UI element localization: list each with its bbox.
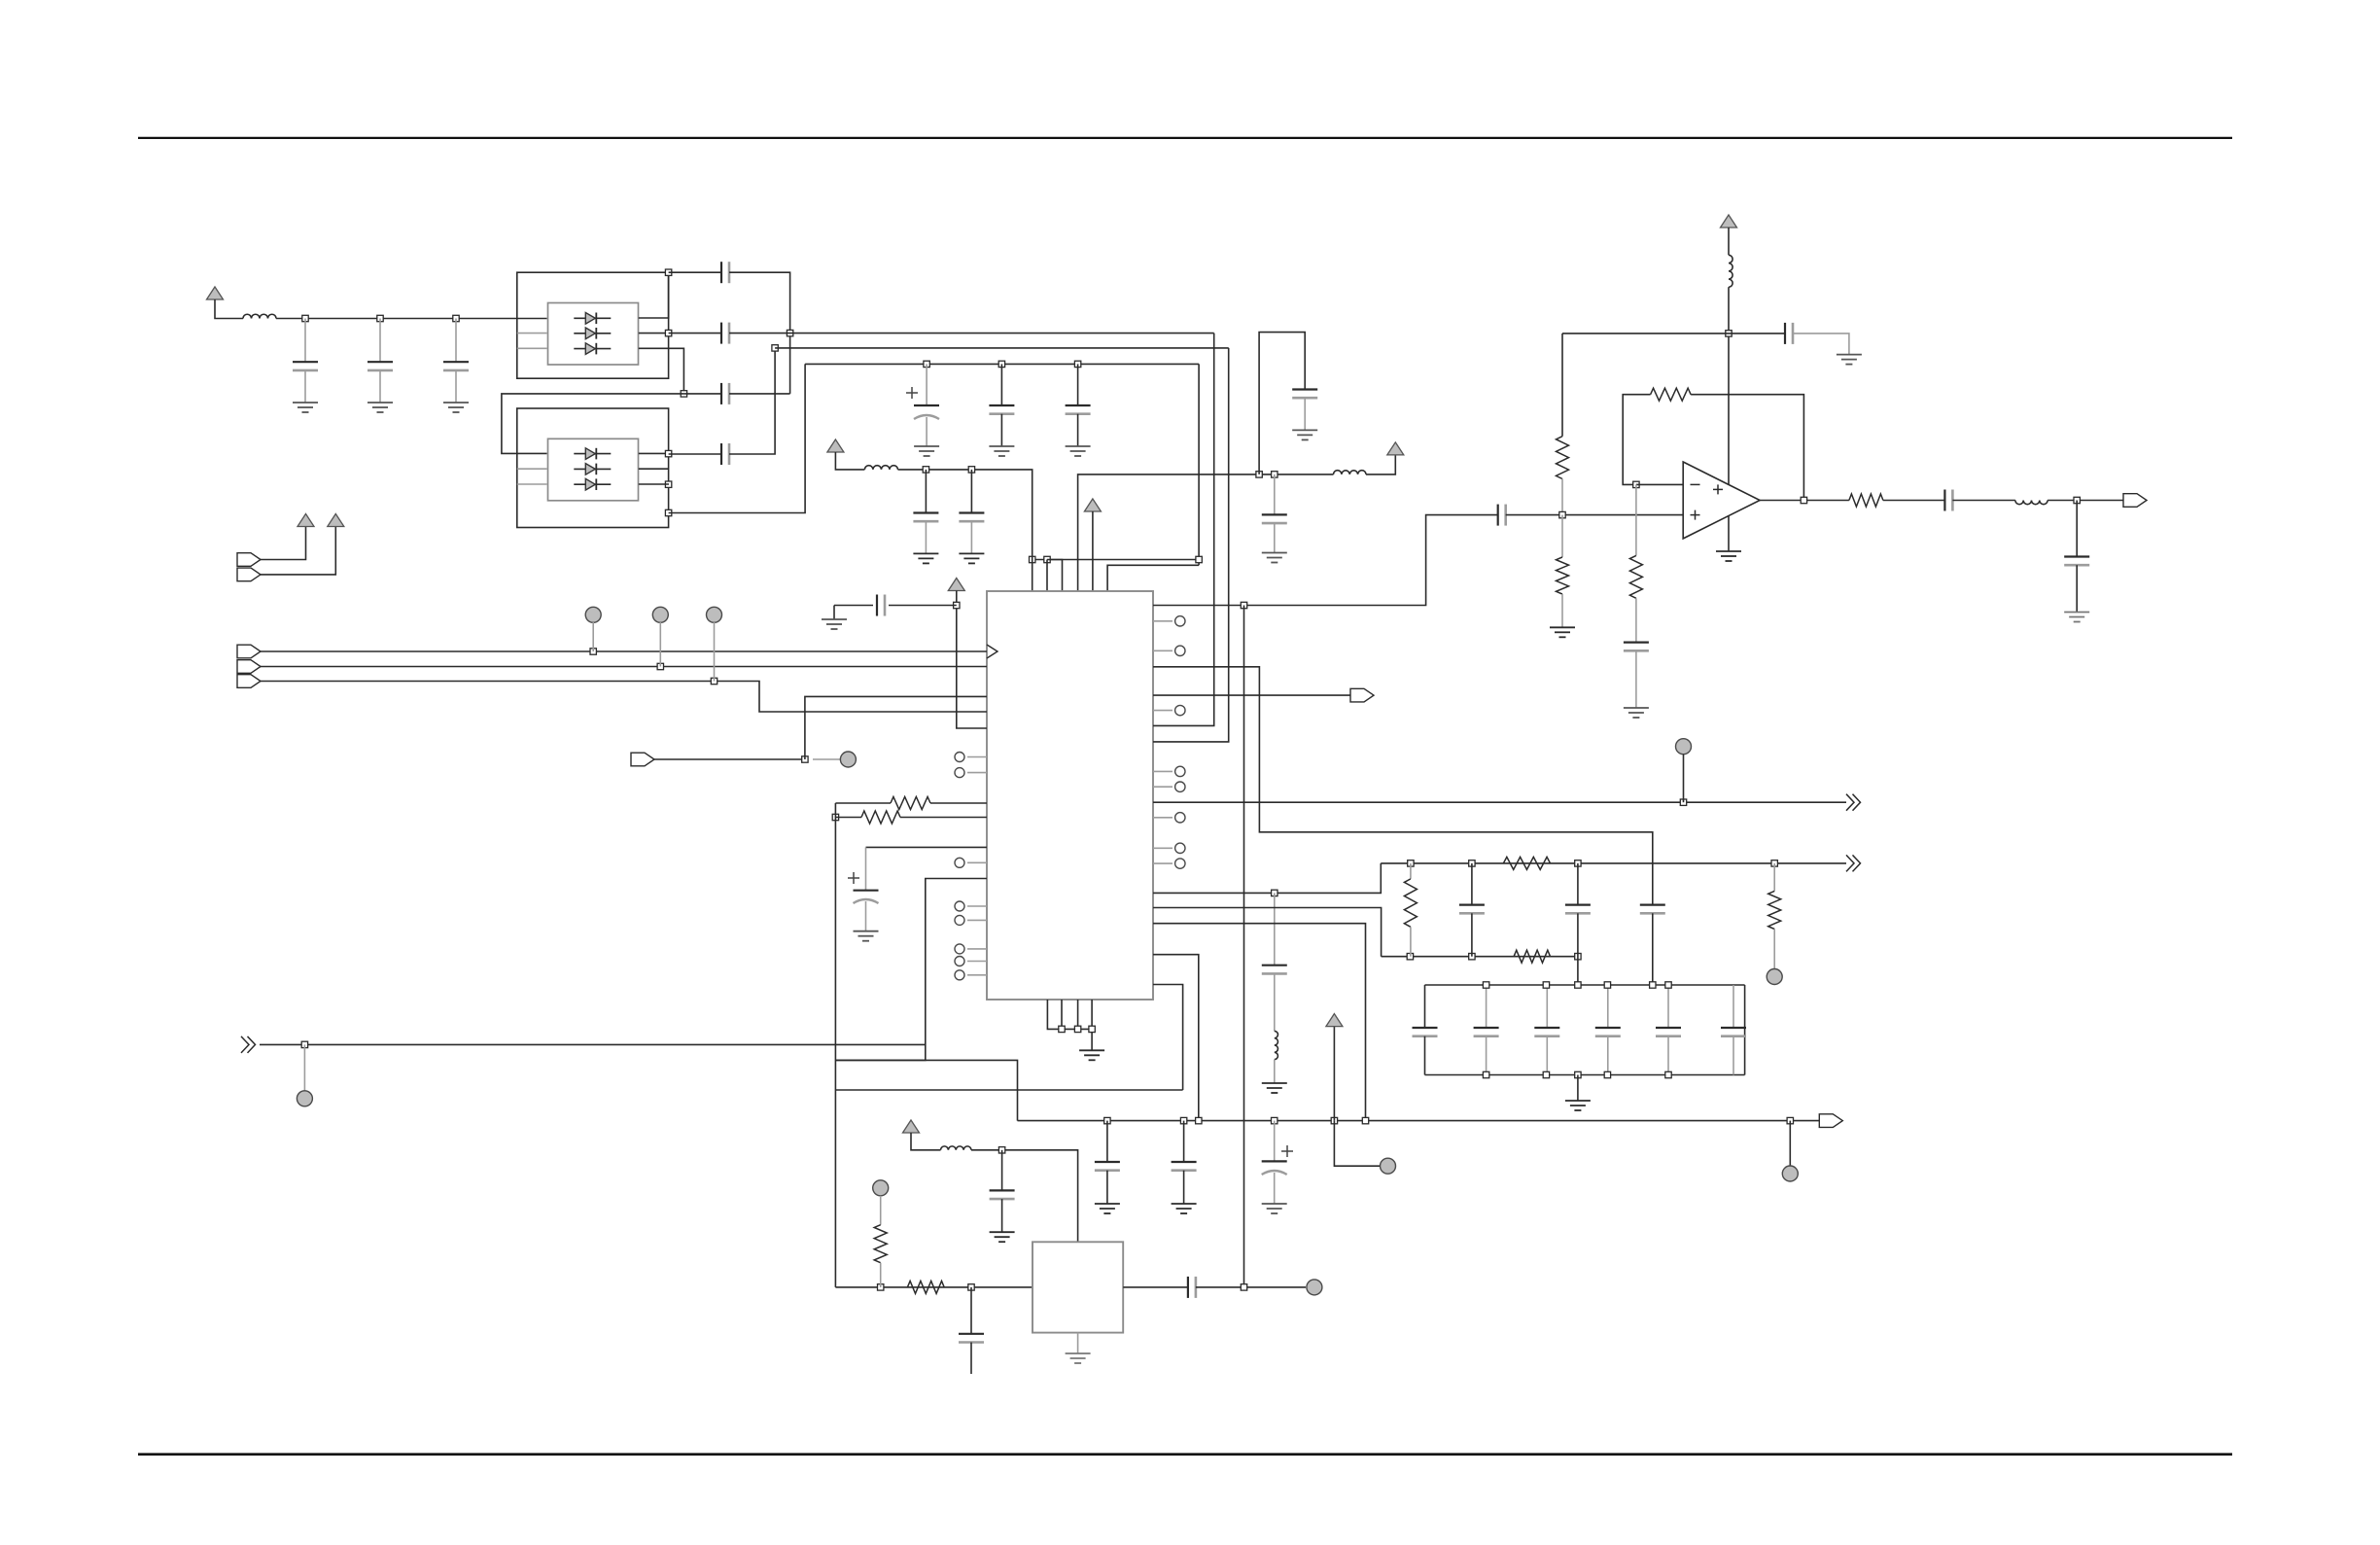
resistor R2 [1503,857,1550,869]
test point TP3 [707,607,722,622]
ground CE1 [914,445,939,447]
connector P5 [237,675,261,688]
inductor L2 [864,466,897,470]
long input line [260,1043,926,1045]
osc gnd stub [1077,1333,1079,1353]
stub C20 top [970,1287,972,1334]
IC bottom pin d [1091,1000,1093,1050]
resistor R6 [907,1281,944,1293]
bank top rail [1425,984,1745,986]
junction bank bottom 1653.4 [1604,1071,1610,1077]
wire C4 right [729,272,790,394]
IC bottom pin a [1047,1000,1092,1029]
power flag VCC7 [1326,1014,1343,1027]
junction D1 top edge [665,269,671,275]
ground C19 [1172,1203,1197,1205]
pin4 rail [1078,474,1334,591]
stub C11 bot [970,521,972,553]
resistor R1 [1404,879,1417,927]
junction gnd bus b [1059,1026,1065,1032]
wire pins top tie [1047,560,1063,592]
input line 2 [261,666,987,668]
connector P3 [237,645,261,658]
capacitor C12 [876,595,878,616]
ground C26 [2064,612,2089,614]
junction opamp out [1801,497,1806,503]
wire C7 right [729,348,775,454]
connector P9 [2123,494,2147,508]
stub NC right 888.1 [1153,862,1172,864]
net vsense [1153,955,1199,1121]
capacitor C1 [293,361,318,363]
junction bus vsense [1196,1117,1202,1123]
stub NC left 975.9 [967,948,987,950]
net fb1 [1153,863,1381,894]
capacitor C3 [443,361,469,363]
junction TP6 [1680,799,1686,805]
stem TP1 [592,622,594,651]
capacitor C5 [720,323,722,344]
stub NC right 840.8 [1153,817,1172,819]
resistor R5 [874,1225,887,1263]
stub C21 bot [1001,1199,1003,1232]
stub C10 top [925,470,927,513]
stub R7 bot [1561,479,1563,515]
diode D2b [574,468,611,470]
net fb2 [1153,908,1382,957]
stub NC right 730.6 [1153,710,1172,712]
plus CE2 [848,877,859,879]
wire C2 top [379,319,381,363]
stub CE1 [926,364,927,405]
ground C21 [990,1231,1015,1233]
stem TP3 [714,622,716,682]
inductor L5 [1729,255,1732,287]
stub LC mid [1274,973,1276,1031]
page top rule [138,137,2232,139]
capacitor C25 [1943,490,1945,511]
junction TP2 [657,663,663,669]
junction rowC C15 [1469,954,1475,960]
junction D2 top out [665,450,671,456]
bank capacitor 4 [1595,1027,1621,1029]
inv input wire [1636,483,1683,485]
no-connect circle left 778.5 [955,753,964,762]
opamp out [1760,500,1849,502]
bypass row [1562,333,1729,334]
power flag VCC5 [1084,499,1101,511]
bank cap 2 bot stub [1486,1036,1487,1075]
capacitor C23 [1784,323,1786,344]
net D1 return [1153,334,1214,726]
wire P2 to VCC2b [261,527,335,575]
connector P1 [237,553,261,567]
wire C6 left [683,393,721,395]
junction AVDD drop [1196,556,1202,562]
riser to C28 [1259,333,1305,474]
junction elco CE1 [924,361,929,367]
capacitor C17 [1640,903,1665,905]
bus feed from left [835,1060,1017,1120]
junction bank bottom 1528.6 [1483,1071,1488,1077]
enable line [654,758,805,760]
junction C10 [923,467,928,473]
capacitor C15 [1459,903,1485,905]
op-amp minus sign [1691,483,1700,485]
plus CE1 [906,392,918,394]
capacitor C14 [1262,965,1287,966]
capacitor C8 [989,404,1014,406]
stub NC left 932 [967,905,987,907]
stub C19 bot [1183,1171,1185,1204]
wire VCC4 to L2 [835,452,864,470]
cap C16 link bot [1577,913,1579,985]
junction D1 mid [665,330,671,335]
stub C8 top [1000,364,1002,405]
capacitor C28 [1292,388,1317,390]
bank cap 5 top stub [1667,985,1669,1028]
page bottom rule [138,1453,2232,1456]
capacitor C27 [1262,513,1287,515]
no-connect circle left 975.9 [955,944,964,954]
opamp vcc wire2 [1728,287,1730,551]
inductor L4 [941,1146,972,1150]
net to out connector [1153,694,1350,696]
junction gnd bus d [1089,1026,1095,1032]
junction DACOUT [1241,602,1246,608]
IC clock pin mark [987,645,997,658]
no-connect circle right 809.2 [1175,782,1185,791]
pin1 stub [1032,560,1033,592]
net RXN to corner [775,347,1229,349]
ground C9 [1066,445,1091,447]
power bus [1018,1120,1820,1122]
no-connect circle left 1002.8 [955,970,964,980]
stem TP9 [880,1196,882,1225]
no-connect circle left 988.5 [955,957,964,966]
ground CE2 [854,931,879,932]
ground C27 [1262,552,1287,554]
junction bank top 1590.4 [1543,982,1549,988]
junction bank top 1716 [1665,982,1671,988]
opamp vcc wire [1728,228,1730,255]
ground bank [1565,1100,1591,1102]
stub D1 left mid [517,333,547,334]
junction bank top 1622.9 [1575,982,1581,988]
resistor R8 [1557,557,1569,594]
net RXP to corner [729,333,1214,334]
test point TP7 [1767,969,1782,985]
power flag VCC6 [948,579,964,591]
stub CE2 gnd [865,901,867,931]
stub LC cap [1274,893,1276,965]
junction pin4 riser [1256,472,1262,477]
ground C11 [959,552,984,554]
wire C7 left [669,453,721,455]
bypass cap row [1729,333,1785,334]
capacitor C22 [1187,1277,1189,1298]
wire VCC6 down [957,591,987,729]
capacitor C2 [367,361,393,363]
junction J3 [453,315,459,321]
capacitor C4 [720,262,722,283]
wire P1 to VCC2a [261,527,306,560]
stub D2 left mid [517,468,547,470]
stub R3 top [1773,863,1775,892]
junction C18 [1104,1117,1110,1123]
stem TP4 [813,758,840,760]
oscillator Y1 [1032,1242,1123,1332]
wire to TP11 [1334,1121,1380,1167]
junction Rb [832,814,838,820]
chevron monitor2 [1846,855,1854,871]
bank cap 4 top stub [1607,985,1609,1028]
wire Ra right [930,802,987,804]
osc out [1123,1286,1188,1288]
wire C1 top [304,319,306,363]
power flag VCC10 [1387,442,1404,455]
junction rowB C15 [1469,860,1475,866]
test point TP2 [652,607,668,622]
test point TP9 [873,1180,889,1196]
power flag VCC1 [207,287,224,299]
stub CE3 gnd [1274,1173,1276,1204]
test point TP11 [1381,1158,1396,1174]
resistor Rb [861,811,900,824]
diode block outer loop D1 [517,272,669,378]
test point TP6 [1676,739,1692,755]
IC bottom pin b [1061,1000,1063,1029]
bank gnd stub [1577,1075,1579,1102]
stub C26 top [2076,501,2078,557]
test point TP8 [1782,1166,1798,1181]
wire L7 to VCC [1366,455,1395,474]
stub C9 bot [1077,414,1079,446]
feedback left [1623,395,1650,485]
ground C23 [1837,354,1862,356]
ground CE3 [1262,1203,1287,1205]
inductor L3 [1275,1031,1278,1059]
wire D1 mid out [639,333,669,334]
junction bank bottom 1716 [1665,1071,1671,1077]
bank capacitor 2 [1474,1027,1499,1029]
resistor R10 [1629,555,1642,598]
capacitor C7 [720,443,722,465]
no-connect circle right 730.6 [1175,705,1185,715]
inductor L6 [2015,501,2047,505]
stub NC left 988.5 [967,961,987,963]
capacitor C16 [1565,903,1591,905]
bias bus vertical [834,803,836,1090]
net rowA [1153,667,1653,905]
feedback right [1691,395,1803,501]
stub NC right 638.8 [1153,620,1172,622]
stub C26 bot [2076,565,2078,612]
junction J1 [302,315,308,321]
wire D2 to rail riser [669,364,806,512]
diode D1b [574,333,611,334]
rail DVDD [898,470,1032,560]
bank cap 3 bot stub [1546,1036,1548,1075]
cap C15 link bot [1471,913,1473,956]
bank bottom rail [1425,1074,1745,1076]
bank cap 6 top stub [1732,985,1734,1028]
stub R1 top [1410,863,1412,879]
junction opamp inv [1633,481,1639,487]
junction C9 [1074,361,1080,367]
stub C27 top [1274,474,1276,515]
wire Rb right [900,817,987,819]
crystal section left rail [834,1090,836,1287]
junction gnd bus c [1074,1026,1080,1032]
stub C24 bot [1635,650,1637,708]
power flag VCC8 [903,1120,920,1133]
ground C8 [989,445,1014,447]
connector P7 [1350,688,1374,702]
diode D2a [574,453,611,455]
stub C18 bot [1106,1171,1108,1204]
test point TP5 [297,1091,312,1106]
stub NC right 669.3 [1153,650,1172,651]
test point TP4 [840,752,856,767]
no-connect circle right 888.1 [1175,859,1185,868]
stub R8 bot [1561,594,1563,627]
bank cap 6 bot stub [1732,1036,1734,1075]
power flag VCC4 [827,439,844,452]
no-connect circle right 669.3 [1175,646,1185,655]
junction bank bottom 1590.4 [1543,1071,1549,1077]
bypass cap row2 [1793,334,1849,355]
ground opamp [1716,550,1741,552]
cap C16 link top [1577,863,1579,905]
wire D2 mid out [639,468,669,470]
stub NC left 778.5 [967,756,987,758]
out wire4 [2047,500,2123,502]
capacitor C24 [1624,641,1649,643]
no-connect circle left 946.4 [955,915,964,925]
resistor R3 [1768,891,1781,929]
no-connect circle right 872.3 [1175,843,1185,853]
stem TP5 [303,1044,305,1090]
junction IC pin1 top [1030,556,1035,562]
wire VCC8 to L4 [911,1133,941,1150]
junction IC pin2 top [1044,556,1050,562]
stub C10 bot [925,521,927,553]
ground C24 [1624,707,1649,709]
test point TP10 [1307,1280,1322,1295]
ground C28 [1292,429,1317,431]
junction bank top 1653.4 [1604,982,1610,988]
stub NC left 946.4 [967,919,987,921]
stub R10 bot [1635,598,1637,642]
wire L1 to diode block [276,318,547,320]
ground C2 [367,402,393,404]
stub CE2 [865,847,867,890]
row B [1381,862,1846,864]
diode block outer loop D2 [517,408,669,528]
connector P4 [237,660,261,674]
rail AVDD drop [1198,364,1200,565]
junction opamp vcc [1726,331,1732,336]
ground C1 [293,402,318,404]
stub C28 bot [1304,398,1306,430]
stub C11 top [970,470,972,513]
junction R5 [878,1284,884,1290]
wire L4 to osc [971,1150,1078,1243]
resistor R9 [1651,388,1692,401]
junction out [2074,497,2080,503]
bus VCC riser [1333,1027,1335,1121]
stub NC left 1002.8 [967,974,987,976]
inductor L1 [243,314,276,318]
no-connect circle right 793.4 [1175,766,1185,776]
inductor L7 [1334,471,1367,474]
pin5 stub [1092,511,1094,591]
stub R1 bot [1410,927,1412,956]
no-connect circle left 794.6 [955,768,964,778]
chevron input left [241,1036,249,1053]
stub NC right 793.4 [1153,770,1172,772]
power flag VCC2b [328,514,344,527]
capacitor C21 [990,1189,1015,1191]
stub NC right 872.3 [1153,847,1172,849]
crystal row [835,1286,1032,1288]
capacitor C13 [1497,505,1499,526]
ground Y1 [1066,1352,1091,1354]
pin6 rail [1107,565,1199,591]
test point TP1 [585,607,601,622]
resistor R7 [1557,437,1569,479]
junction TP3 [711,678,717,684]
wire D1 low out [639,348,684,394]
stub CE3 [1274,1121,1276,1162]
stub CE1 gnd [926,417,927,446]
ground C3 [443,402,469,404]
wire C4 left [669,271,721,273]
stub NC left 794.6 [967,772,987,774]
bank cap 3 top stub [1546,985,1548,1028]
out wire3 [1952,500,2014,502]
ground IC [1079,1049,1104,1051]
power flag VCC9 [1721,215,1737,228]
junction C11 [968,467,974,473]
ground LC [1262,1082,1287,1084]
stub D1 left low [517,347,547,349]
wire D2 top out [639,452,669,454]
stub LC gnd [1274,1060,1276,1083]
connector P8 [1819,1114,1842,1128]
junction rowC R1 [1407,954,1413,960]
capacitor C11 [959,511,984,513]
input line 3 [261,682,987,713]
electrolytic CE3 [1262,1160,1287,1162]
wire C3 bottom [455,370,457,403]
capacitor C26 [2064,555,2089,557]
bank capacitor 3 [1534,1027,1559,1029]
diode D1a [574,317,611,319]
ground C12 [822,618,847,620]
resistor Ra [891,797,930,810]
input line 1 [261,650,987,652]
diode array box D1 [548,303,639,366]
stub R8 top [1561,515,1563,557]
cap C15 link top [1471,863,1473,905]
bank cap 2 top stub [1486,985,1487,1028]
plus CE3 [1281,1150,1293,1152]
stub NC right 809.2 [1153,786,1172,788]
cap C17 link bot [1652,913,1654,985]
wire C6 right [729,393,790,395]
